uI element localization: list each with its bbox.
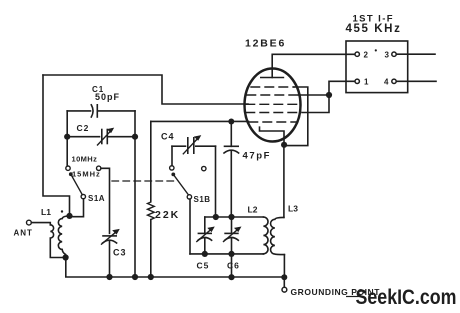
grounding point terminal [282,277,287,292]
node bus C2 branch [132,274,138,280]
switch S1A contact 10MHz [66,166,70,170]
svg-text:22K: 22K [155,209,180,221]
inductor L1 primary [50,225,63,258]
node tank bottom C6 [228,251,234,257]
svg-text:L1: L1 [41,207,51,217]
node 47pF junction [228,119,234,125]
wire grid1 line to tube [151,120,249,122]
node L1 bottom junction [63,254,69,260]
switch S1B contact left [170,166,174,170]
tube grid row 5 [249,121,296,123]
tube grid row 3 [246,103,299,105]
switch S1B contact right open [202,166,206,170]
capacitor C5 variable [197,217,214,254]
wire 15MHz contact to C3 [101,168,110,233]
node tank top C6 branch [228,214,234,220]
svg-text:SeekIC.com: SeekIC.com [356,286,457,309]
wire tank top line [205,216,264,218]
capacitor C4 variable [172,136,216,154]
wire L1 bottom to ground bus [66,258,284,278]
capacitor C6 variable [224,217,241,254]
tube plate and top lead [261,54,355,77]
svg-text:ANT: ANT [14,229,33,238]
tube U1 12BE6 envelope [245,69,301,142]
wire screen grid tie [299,95,330,113]
wire C2 node to ground bus [134,137,136,277]
T1 pin 2 [355,52,359,56]
svg-text:2: 2 [364,51,369,60]
svg-text:50pF: 50pF [95,92,120,102]
wire underscore artifact [346,296,360,298]
wire C4 right down to tank top [215,146,217,217]
svg-text:L2: L2 [248,205,258,215]
wire L3 bottom to bus [283,255,285,278]
node tank bottom C5 [202,251,208,257]
node tank top C4 branch [213,214,219,220]
svg-text:S1A: S1A [88,194,105,203]
wire pin4 output [397,80,436,82]
node L1 phasing dot [61,210,63,212]
T1 pin 1 [355,79,359,83]
svg-text:1: 1 [364,78,369,87]
svg-text:C2: C2 [77,123,90,133]
switch S1A arm and pole [69,172,86,199]
svg-text:3: 3 [385,51,390,60]
tube grid row 2 [247,94,298,96]
T1 pin 3 [392,52,396,56]
IF transformer T1 box [346,41,408,93]
wire C1 right vertical [134,111,136,137]
wire S1B pole down to tank bottom [189,199,191,254]
wire C6 node to ground bus [231,254,233,277]
wire outer left edge down to L1 [43,75,70,213]
wire grid1 row to feedback line [287,87,308,146]
wire screen to IF pin1 [329,81,355,95]
svg-text:C6: C6 [227,261,240,271]
wire C1 left vertical [66,111,68,166]
node C6 bus junction [228,274,234,280]
antenna terminal ANT [27,220,51,225]
node L1 top junction [66,213,72,219]
tube heater cathode [260,127,285,142]
switch S1A contact 15MHz [97,166,101,170]
inductor L2 [263,217,268,254]
wire C4 left to S1B contact [171,146,173,166]
wire pin3 output [397,53,435,55]
svg-text:C4: C4 [161,132,175,142]
node C2 right junction [132,134,138,140]
svg-text:10MHz: 10MHz [72,155,98,164]
T1 pin 4 [392,79,396,83]
capacitor 47pF [224,122,239,218]
node cathode junction [281,142,287,148]
node screen junction [326,92,332,98]
tube grid row 1 [251,86,294,88]
wire L3 top to cathode [283,145,285,218]
tube grid row 4 [246,112,299,114]
svg-text:L3: L3 [288,204,298,214]
svg-text:47pF: 47pF [243,151,272,162]
wire top signal line from L1 top to tube grid3 [43,75,248,104]
node bus C3 [106,274,112,280]
svg-text:S1B: S1B [194,195,211,204]
wire tank bottom line [190,253,263,255]
node bus 22K [148,274,154,280]
resistor R1 22K [148,121,155,277]
svg-text:C5: C5 [197,261,210,271]
node C2 left junction [64,134,70,140]
node stray dot [375,49,377,51]
inductor L3 [271,217,285,254]
svg-text:C3: C3 [113,248,127,258]
svg-text:12BE6: 12BE6 [245,38,286,50]
capacitor C1 value 50pF [67,105,135,117]
inductor L1 secondary [58,216,69,258]
capacitor C3 variable [102,229,120,277]
capacitor C2 variable [67,128,135,145]
svg-text:15MHz: 15MHz [72,170,101,179]
wire S1A pole down to L1 top [70,199,84,217]
svg-text:455 KHz: 455 KHz [346,23,402,35]
ganged switch dashed link [112,180,177,182]
svg-text:4: 4 [384,78,389,87]
switch S1B arm and pole [171,173,191,200]
node bus grounding junction [281,274,287,280]
